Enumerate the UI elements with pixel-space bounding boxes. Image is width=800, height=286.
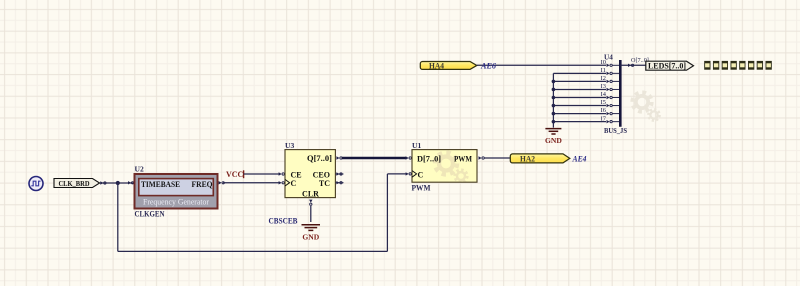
- LED D7: [757, 61, 763, 70]
- pin end at U1 C: [406, 172, 412, 175]
- wire feedback down: [117, 183, 119, 251]
- pin CLR of U3: [309, 200, 312, 206]
- svg-text:CLK_BRD: CLK_BRD: [59, 179, 90, 188]
- pin I0 of U4: [601, 59, 620, 67]
- svg-text:I3: I3: [601, 83, 606, 90]
- pin PWM of U1: [479, 156, 485, 159]
- pin O[7..0] of U4: [620, 57, 649, 67]
- wire I5: [553, 105, 606, 107]
- svg-text:TC: TC: [319, 179, 330, 188]
- svg-text:Frequency Generator: Frequency Generator: [143, 197, 209, 206]
- junction: [116, 181, 120, 185]
- junction I3: [552, 88, 556, 92]
- port HA4: [420, 62, 477, 71]
- svg-text:LEDS[7..0]: LEDS[7..0]: [648, 62, 686, 71]
- svg-text:PWM: PWM: [454, 154, 472, 163]
- svg-text:I4: I4: [601, 91, 607, 98]
- wire CLR to GND: [310, 206, 312, 222]
- LED D3: [722, 61, 728, 70]
- pin end at U2 input: [128, 181, 134, 184]
- ladder vertical wire: [552, 73, 554, 127]
- svg-text:I7: I7: [601, 115, 607, 122]
- LED D5: [739, 61, 745, 70]
- junction I7: [552, 120, 556, 124]
- wire I4: [553, 97, 606, 99]
- svg-text:U2: U2: [135, 165, 144, 174]
- svg-text:I6: I6: [601, 107, 606, 114]
- svg-text:I1: I1: [601, 67, 606, 74]
- wire I7: [553, 121, 606, 123]
- bus Q to D: [342, 157, 407, 160]
- port LEDS[7..0]: [646, 61, 694, 70]
- svg-text:C: C: [418, 171, 424, 180]
- wire I1: [553, 72, 606, 74]
- pin end at U1 D: [406, 156, 412, 159]
- pin I2 of U4: [601, 75, 620, 83]
- power port VCC: [226, 170, 244, 179]
- svg-text:U3: U3: [285, 141, 294, 150]
- svg-text:U1: U1: [412, 141, 421, 150]
- LED D6: [748, 61, 754, 70]
- svg-text:FREQ: FREQ: [192, 180, 213, 189]
- ground GND (CLR net): [302, 225, 321, 242]
- pin end at U3 C: [279, 181, 285, 184]
- svg-text:GND: GND: [302, 232, 319, 241]
- wire PWM to HA2: [484, 157, 511, 159]
- LED D4: [731, 61, 737, 70]
- component U4 body bar: [619, 60, 622, 127]
- svg-text:HA4: HA4: [429, 62, 444, 71]
- clock notch on U3 C pin: [285, 179, 290, 186]
- svg-text:I5: I5: [601, 99, 606, 106]
- port CLK_BRD: [54, 179, 100, 189]
- pin I3 of U4: [601, 83, 620, 91]
- port HA2: [510, 154, 570, 164]
- pin CEO of U3: [335, 172, 343, 175]
- wire FREQ to U3 C: [223, 182, 279, 184]
- LED D8: [766, 61, 772, 70]
- svg-text:I2: I2: [601, 75, 606, 82]
- wire I3: [553, 88, 606, 90]
- svg-text:PWM: PWM: [412, 184, 431, 193]
- LED D1: [704, 61, 710, 70]
- clock source icon: [29, 177, 43, 191]
- ground GND (ladder): [545, 129, 562, 145]
- svg-text:D[7..0]: D[7..0]: [417, 154, 441, 163]
- pin I4 of U4: [601, 91, 620, 99]
- pin I1 of U4: [601, 67, 620, 75]
- svg-text:AE6: AE6: [480, 62, 497, 71]
- pin Q[7..0] of U3: [336, 156, 342, 159]
- clock notch on U1 C pin: [412, 171, 417, 178]
- svg-text:GND: GND: [545, 136, 562, 145]
- pin I7 of U4: [601, 115, 620, 123]
- wire I6: [553, 113, 606, 115]
- wire CLK_BRD to U2: [100, 182, 135, 184]
- wire feedback up: [386, 174, 388, 252]
- pin I5 of U4: [601, 99, 620, 107]
- pin end at U2 FREQ output: [219, 181, 225, 184]
- svg-text:CBSCEB: CBSCEB: [269, 217, 298, 226]
- LED D2: [713, 61, 719, 70]
- pin TC of U3: [335, 181, 343, 184]
- component U3: [285, 150, 335, 199]
- svg-text:CLKGEN: CLKGEN: [135, 209, 165, 219]
- svg-text:Q[7..0]: Q[7..0]: [307, 154, 332, 163]
- wire I2: [553, 80, 606, 82]
- svg-text:BUS_JS: BUS_JS: [604, 126, 627, 135]
- svg-text:CLR: CLR: [302, 189, 319, 198]
- pin end at U3 CE: [279, 172, 285, 175]
- wire HA4 to U4 I0: [477, 64, 606, 66]
- svg-text:U4: U4: [604, 53, 613, 61]
- junction I6: [552, 112, 556, 116]
- wire feedback bottom: [118, 250, 388, 252]
- junction I5: [552, 104, 556, 108]
- component U1: [412, 150, 477, 183]
- svg-text:HA2: HA2: [520, 155, 535, 164]
- svg-text:AE4: AE4: [572, 155, 587, 164]
- wire feedback to U1 C: [387, 173, 407, 175]
- wire VCC to U3 CE: [244, 173, 279, 175]
- watermark gear near BUS_JS: [633, 93, 660, 121]
- junction I2: [552, 80, 556, 84]
- svg-text:C: C: [291, 179, 297, 188]
- svg-text:VCC: VCC: [226, 170, 244, 179]
- svg-text:TIMEBASE: TIMEBASE: [141, 180, 180, 189]
- pin end at CLK_BRD tip: [100, 181, 106, 184]
- pin I6 of U4: [601, 107, 620, 115]
- sheet symbol U2: [135, 174, 218, 209]
- junction I4: [552, 96, 556, 100]
